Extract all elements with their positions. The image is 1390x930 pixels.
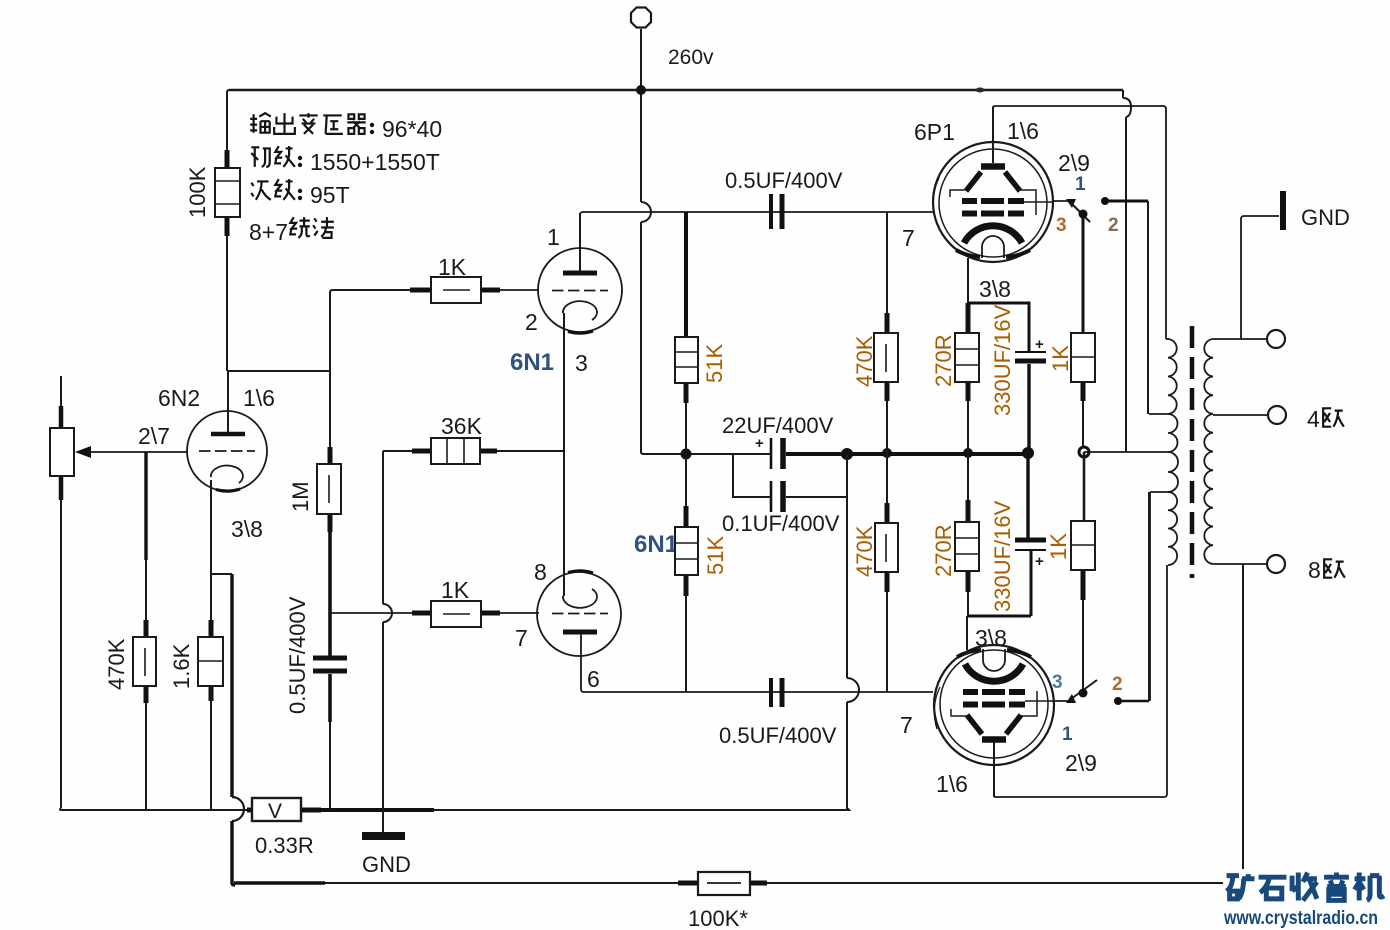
junction dot 330UF pair bbox=[1022, 447, 1034, 459]
resistor 470K upper (6P1 grid leak) bbox=[874, 212, 898, 453]
wire ground bus thick segment bbox=[321, 808, 434, 812]
svg-text:100K: 100K bbox=[185, 166, 210, 218]
svg-text:0.33R: 0.33R bbox=[255, 833, 314, 858]
junction dot 270R pair bbox=[963, 448, 973, 458]
capacitor 0.1UF/400V bbox=[771, 481, 847, 512]
svg-text:8+7: 8+7 bbox=[249, 219, 288, 245]
label 330UF/16V upper rotated bbox=[990, 304, 1015, 416]
svg-text:1M: 1M bbox=[288, 481, 313, 512]
terminal circle 8ohm bbox=[1267, 555, 1285, 573]
svg-text:6N1: 6N1 bbox=[510, 349, 554, 376]
label 1K bbox=[438, 254, 467, 280]
svg-text:6: 6 bbox=[587, 666, 600, 692]
svg-text:1: 1 bbox=[1075, 174, 1086, 195]
svg-text:1: 1 bbox=[1062, 724, 1073, 745]
wire secondary 4ohm tap bbox=[1213, 414, 1268, 416]
wire 6P1 upper anode to OPT primary top bbox=[993, 106, 1166, 339]
label 8ohm bbox=[1308, 557, 1321, 583]
svg-text:2\7: 2\7 bbox=[138, 423, 170, 449]
svg-text:6N1: 6N1 bbox=[634, 531, 678, 558]
resistor 51K upper (6N1 plate load) bbox=[675, 212, 698, 454]
label 1 switch lower bbox=[1062, 724, 1073, 745]
label GND top right bbox=[1301, 205, 1350, 230]
wire shared cathode riser x=564 bbox=[563, 452, 565, 596]
svg-text:270R: 270R bbox=[931, 524, 956, 577]
label 470K upper rotated bbox=[852, 335, 877, 387]
label 470K lower rotated bbox=[852, 525, 877, 577]
label GND bottom bbox=[362, 852, 411, 877]
svg-text:1K: 1K bbox=[441, 577, 470, 603]
svg-text:1550+1550T: 1550+1550T bbox=[310, 149, 440, 175]
svg-text:4: 4 bbox=[1307, 406, 1320, 432]
potentiometer input volume bbox=[50, 406, 91, 500]
label 3 switch upper bbox=[1056, 215, 1067, 236]
svg-text:3\8: 3\8 bbox=[979, 276, 1011, 302]
svg-text:2\9: 2\9 bbox=[1058, 150, 1090, 176]
svg-text:7: 7 bbox=[900, 712, 913, 738]
svg-text:1\6: 1\6 bbox=[936, 771, 968, 797]
svg-text:7: 7 bbox=[902, 225, 915, 251]
label 4ohm bbox=[1307, 406, 1320, 432]
resistor 270R lower bbox=[955, 453, 979, 616]
svg-text:1: 1 bbox=[547, 224, 560, 250]
svg-text:100K*: 100K* bbox=[688, 906, 748, 930]
watermark url www.crystalradio.cn bbox=[1223, 908, 1378, 929]
tube 6P1 upper bbox=[933, 107, 1053, 262]
label 7 (6P1 lower grid) bbox=[900, 712, 913, 738]
resistor 270R upper (6P1 cathode) bbox=[955, 258, 979, 453]
svg-text:V: V bbox=[268, 800, 282, 823]
label 1 switch upper bbox=[1075, 174, 1086, 195]
node artifact dot on bus bbox=[976, 88, 985, 93]
label 2\9 (6P1 screen) bbox=[1058, 150, 1090, 176]
note text block: 次级：95T bbox=[251, 179, 295, 200]
label 6N1 upper bbox=[510, 349, 554, 376]
note text block: 初级：1550+1550T bbox=[251, 146, 295, 167]
resistor 100K* bbox=[678, 872, 767, 895]
junction dot at 260v bus bbox=[636, 85, 646, 95]
tube 6N2 bbox=[187, 371, 267, 491]
svg-text:3: 3 bbox=[1052, 672, 1063, 693]
label 270R upper rotated bbox=[931, 334, 956, 387]
terminal circle 4ohm bbox=[1268, 406, 1286, 424]
transformer core bbox=[1190, 326, 1195, 578]
note text block: 输出变压器：96*40 bbox=[250, 113, 366, 134]
svg-text:1K: 1K bbox=[1048, 345, 1073, 372]
svg-text:470K: 470K bbox=[104, 638, 129, 690]
label 260v bbox=[668, 46, 714, 69]
svg-text:3: 3 bbox=[1056, 215, 1067, 236]
label 470K rotated bbox=[104, 638, 129, 690]
label 1K upper rotated bbox=[1048, 345, 1073, 372]
label 270R lower rotated bbox=[931, 524, 956, 577]
resistor 1.6K (6N2 cathode) bbox=[198, 480, 223, 810]
label 22UF/400V bbox=[722, 413, 834, 438]
resistor 1K lower (UL switch) bbox=[1071, 452, 1095, 689]
label 6N1 lower bbox=[634, 531, 678, 558]
resistor 1K lower (6N1 lower grid stopper) bbox=[412, 601, 539, 627]
svg-text:1K: 1K bbox=[438, 254, 467, 280]
transformer OPT primary winding bbox=[1149, 339, 1178, 701]
svg-text:3\8: 3\8 bbox=[975, 625, 1007, 651]
resistor 1M (6N1 lower grid leak) bbox=[317, 371, 341, 656]
wire secondary 8ohm bottom bbox=[1213, 563, 1267, 565]
wire grid 6N2 y=452 bbox=[91, 451, 188, 453]
svg-text:260v: 260v bbox=[668, 46, 714, 69]
resistor 470K (6N2 grid) bbox=[133, 452, 156, 810]
label 2 switch lower bbox=[1112, 674, 1123, 695]
svg-text:6N2: 6N2 bbox=[158, 385, 200, 411]
transformer secondary winding bbox=[1204, 339, 1213, 564]
label 1\6 (6P1 lower anode) bbox=[936, 771, 968, 797]
wire center-tap line y=452 to OPT bbox=[1084, 451, 1170, 453]
resistor 36K (shared cathode) bbox=[383, 438, 564, 464]
label 1\6 (6P1 anode) bbox=[1007, 118, 1039, 144]
label 0.5UF/400V lower bbox=[719, 723, 837, 748]
wire thick cathode bus y=454 bbox=[786, 452, 1033, 456]
junction ring dot 1K pair bbox=[1079, 447, 1089, 457]
label 100K* bbox=[688, 906, 748, 930]
label 3\8 (6N2 cathode) bbox=[231, 516, 263, 542]
node 260v supply terminal (hexagon) bbox=[631, 8, 651, 28]
svg-text:1\6: 1\6 bbox=[243, 385, 275, 411]
wire ground bus y=810 bbox=[60, 808, 849, 810]
label 3\8 (6P1 lower cathode) bbox=[975, 625, 1007, 651]
svg-text:2: 2 bbox=[525, 309, 538, 335]
capacitor 330UF/16V upper bbox=[968, 303, 1046, 453]
switch UL lower: contact arm bbox=[1052, 492, 1149, 705]
wire GND tap riser bbox=[1241, 216, 1279, 339]
label 6 (6N1 lower anode pin) bbox=[587, 666, 600, 692]
svg-text:+: + bbox=[1035, 553, 1044, 570]
wire coupling riser x=330 up to 1K bbox=[330, 290, 410, 371]
watermark logo 矿石收音机 bbox=[1227, 873, 1384, 901]
label 51K lower rotated bbox=[703, 536, 728, 575]
wire 6P1 lower anode to OPT primary bottom bbox=[994, 565, 1167, 797]
resistor 51K lower bbox=[675, 454, 698, 692]
svg-text:36K: 36K bbox=[441, 413, 483, 439]
capacitor 330UF/16V lower bbox=[967, 453, 1046, 650]
label 3\8 (6P1 cathode) bbox=[979, 276, 1011, 302]
wire secondary top to common terminal bbox=[1213, 338, 1267, 340]
wire feedback branch from cathode bbox=[211, 573, 232, 575]
label 1.6K rotated bbox=[169, 643, 194, 689]
capacitor 22UF/400V bbox=[755, 435, 783, 469]
capacitor 0.5UF/400V upper coupling bbox=[771, 194, 782, 229]
junction dot ground return bbox=[841, 448, 853, 460]
wire 0.1UF branch corner x=733 bbox=[733, 454, 770, 497]
wire feedback bus y=883 bbox=[234, 881, 1223, 884]
label 36K bbox=[441, 413, 483, 439]
svg-text:0.5UF/400V: 0.5UF/400V bbox=[725, 168, 843, 193]
wire ground return x=847 down with hop over y=692 bbox=[847, 454, 859, 810]
svg-text:7: 7 bbox=[515, 625, 528, 651]
svg-text:2: 2 bbox=[1108, 215, 1119, 236]
svg-text:330UF/16V: 330UF/16V bbox=[990, 500, 1015, 612]
svg-text:0.1UF/400V: 0.1UF/400V bbox=[722, 511, 840, 536]
ground symbol GND top right bbox=[1280, 191, 1286, 230]
label 6N2 bbox=[158, 385, 200, 411]
svg-text:2\9: 2\9 bbox=[1065, 750, 1097, 776]
label 2\7 bbox=[138, 423, 170, 449]
svg-text:470K: 470K bbox=[852, 525, 877, 577]
label 6P1 bbox=[914, 119, 955, 145]
svg-text:0.5UF/400V: 0.5UF/400V bbox=[285, 596, 310, 714]
svg-text:GND: GND bbox=[1301, 205, 1350, 230]
label 2\9 (6P1 lower screen) bbox=[1065, 750, 1097, 776]
junction dot 470K pair bbox=[882, 448, 892, 458]
label 2 (6N1 grid pin) bbox=[525, 309, 538, 335]
wire 6N1 upper anode y=212 bbox=[580, 212, 933, 273]
label 1K lower bbox=[441, 577, 470, 603]
label 0.33R bbox=[255, 833, 314, 858]
svg-text:22UF/400V: 22UF/400V bbox=[722, 413, 834, 438]
svg-text:+: + bbox=[1035, 336, 1044, 353]
svg-text:330UF/16V: 330UF/16V bbox=[990, 304, 1015, 416]
capacitor 0.5UF/400V (6N1 lower grid) bbox=[313, 658, 347, 810]
svg-text:2: 2 bbox=[1112, 674, 1123, 695]
svg-text:96*40: 96*40 bbox=[382, 116, 442, 142]
ground symbol GND bottom bbox=[362, 832, 405, 840]
wire B+ right drop x=1126 from bus with hop over y=107 bbox=[1123, 90, 1131, 452]
wire input line x=61 bbox=[60, 376, 62, 808]
label 0.1UF/400V bbox=[722, 511, 840, 536]
tube 6N1 lower bbox=[537, 571, 621, 656]
label 0.5UF/400V rotated bbox=[285, 596, 310, 714]
label 3 switch lower bbox=[1052, 672, 1063, 693]
svg-text:1.6K: 1.6K bbox=[169, 643, 194, 689]
wire GND drop x=383 with hop over y=613 bbox=[383, 451, 392, 833]
label 1M rotated bbox=[288, 481, 313, 512]
wire B+ horizontal y=454 from corner 642 to 22UF left plate bbox=[641, 452, 770, 454]
resistor 1K (6N1 upper grid stopper) bbox=[410, 277, 539, 303]
label 0.5UF/400V upper bbox=[725, 168, 843, 193]
label 100K rotated bbox=[185, 166, 210, 218]
svg-text:270R: 270R bbox=[931, 334, 956, 387]
label 51K upper rotated bbox=[702, 344, 727, 383]
resistor 470K lower bbox=[875, 453, 898, 692]
svg-text:8: 8 bbox=[534, 559, 547, 585]
svg-text:3: 3 bbox=[575, 350, 588, 376]
wire lower 6N1 grid y=613 bbox=[330, 612, 412, 614]
svg-text:95T: 95T bbox=[310, 182, 350, 208]
wire 6N2 anode to coupling node bbox=[228, 370, 330, 372]
terminal circle common bbox=[1267, 330, 1285, 348]
label 7 (6P1 grid) bbox=[902, 225, 915, 251]
label 3 (6N1 cathode pin) bbox=[575, 350, 588, 376]
capacitor 0.5UF/400V lower coupling bbox=[771, 678, 782, 707]
wire top B+ bus y=90 bbox=[229, 89, 1123, 92]
svg-text:8: 8 bbox=[1308, 557, 1321, 583]
note text block: 8+7绕法 bbox=[249, 219, 288, 245]
resistor 1K upper (UL switch) bbox=[1071, 214, 1095, 447]
label 8 (6N1 lower cathode pin) bbox=[534, 559, 547, 585]
svg-text:6P1: 6P1 bbox=[914, 119, 955, 145]
svg-text:470K: 470K bbox=[852, 335, 877, 387]
wire feedback riser x=1243 from 8ohm tap bbox=[1242, 564, 1244, 869]
wire 6N1 lower anode y=692 bbox=[581, 634, 933, 692]
wire feedback drop x=232 with hop over ground bus bbox=[232, 574, 244, 885]
label 7 (6N1 lower grid pin) bbox=[515, 625, 528, 651]
label 1K lower rotated bbox=[1046, 533, 1071, 560]
label 1 (6N1 anode pin) bbox=[547, 224, 560, 250]
switch UL upper: contact arm bbox=[1052, 197, 1148, 414]
junction dot 51K pair on B+ wire bbox=[681, 449, 692, 460]
svg-text:www.crystalradio.cn: www.crystalradio.cn bbox=[1223, 908, 1378, 929]
label 2 switch upper bbox=[1108, 215, 1119, 236]
svg-text:51K: 51K bbox=[702, 344, 727, 383]
tube 6P1 lower bbox=[934, 645, 1054, 797]
tube 6N1 upper bbox=[538, 213, 622, 452]
wire hexagon lead down x=641 with hop over y=212 wire bbox=[641, 29, 651, 452]
svg-text:1K: 1K bbox=[1046, 533, 1071, 560]
label 1\6 (6N2 anode) bbox=[243, 385, 275, 411]
svg-text:0.5UF/400V: 0.5UF/400V bbox=[719, 723, 837, 748]
resistor 0.33R (V) bbox=[247, 798, 321, 823]
svg-text:1\6: 1\6 bbox=[1007, 118, 1039, 144]
svg-text:GND: GND bbox=[362, 852, 411, 877]
svg-text:51K: 51K bbox=[703, 536, 728, 575]
svg-text:3\8: 3\8 bbox=[231, 516, 263, 542]
label 330UF/16V lower rotated bbox=[990, 500, 1015, 612]
resistor 100K (6N2 plate load) bbox=[215, 90, 240, 371]
